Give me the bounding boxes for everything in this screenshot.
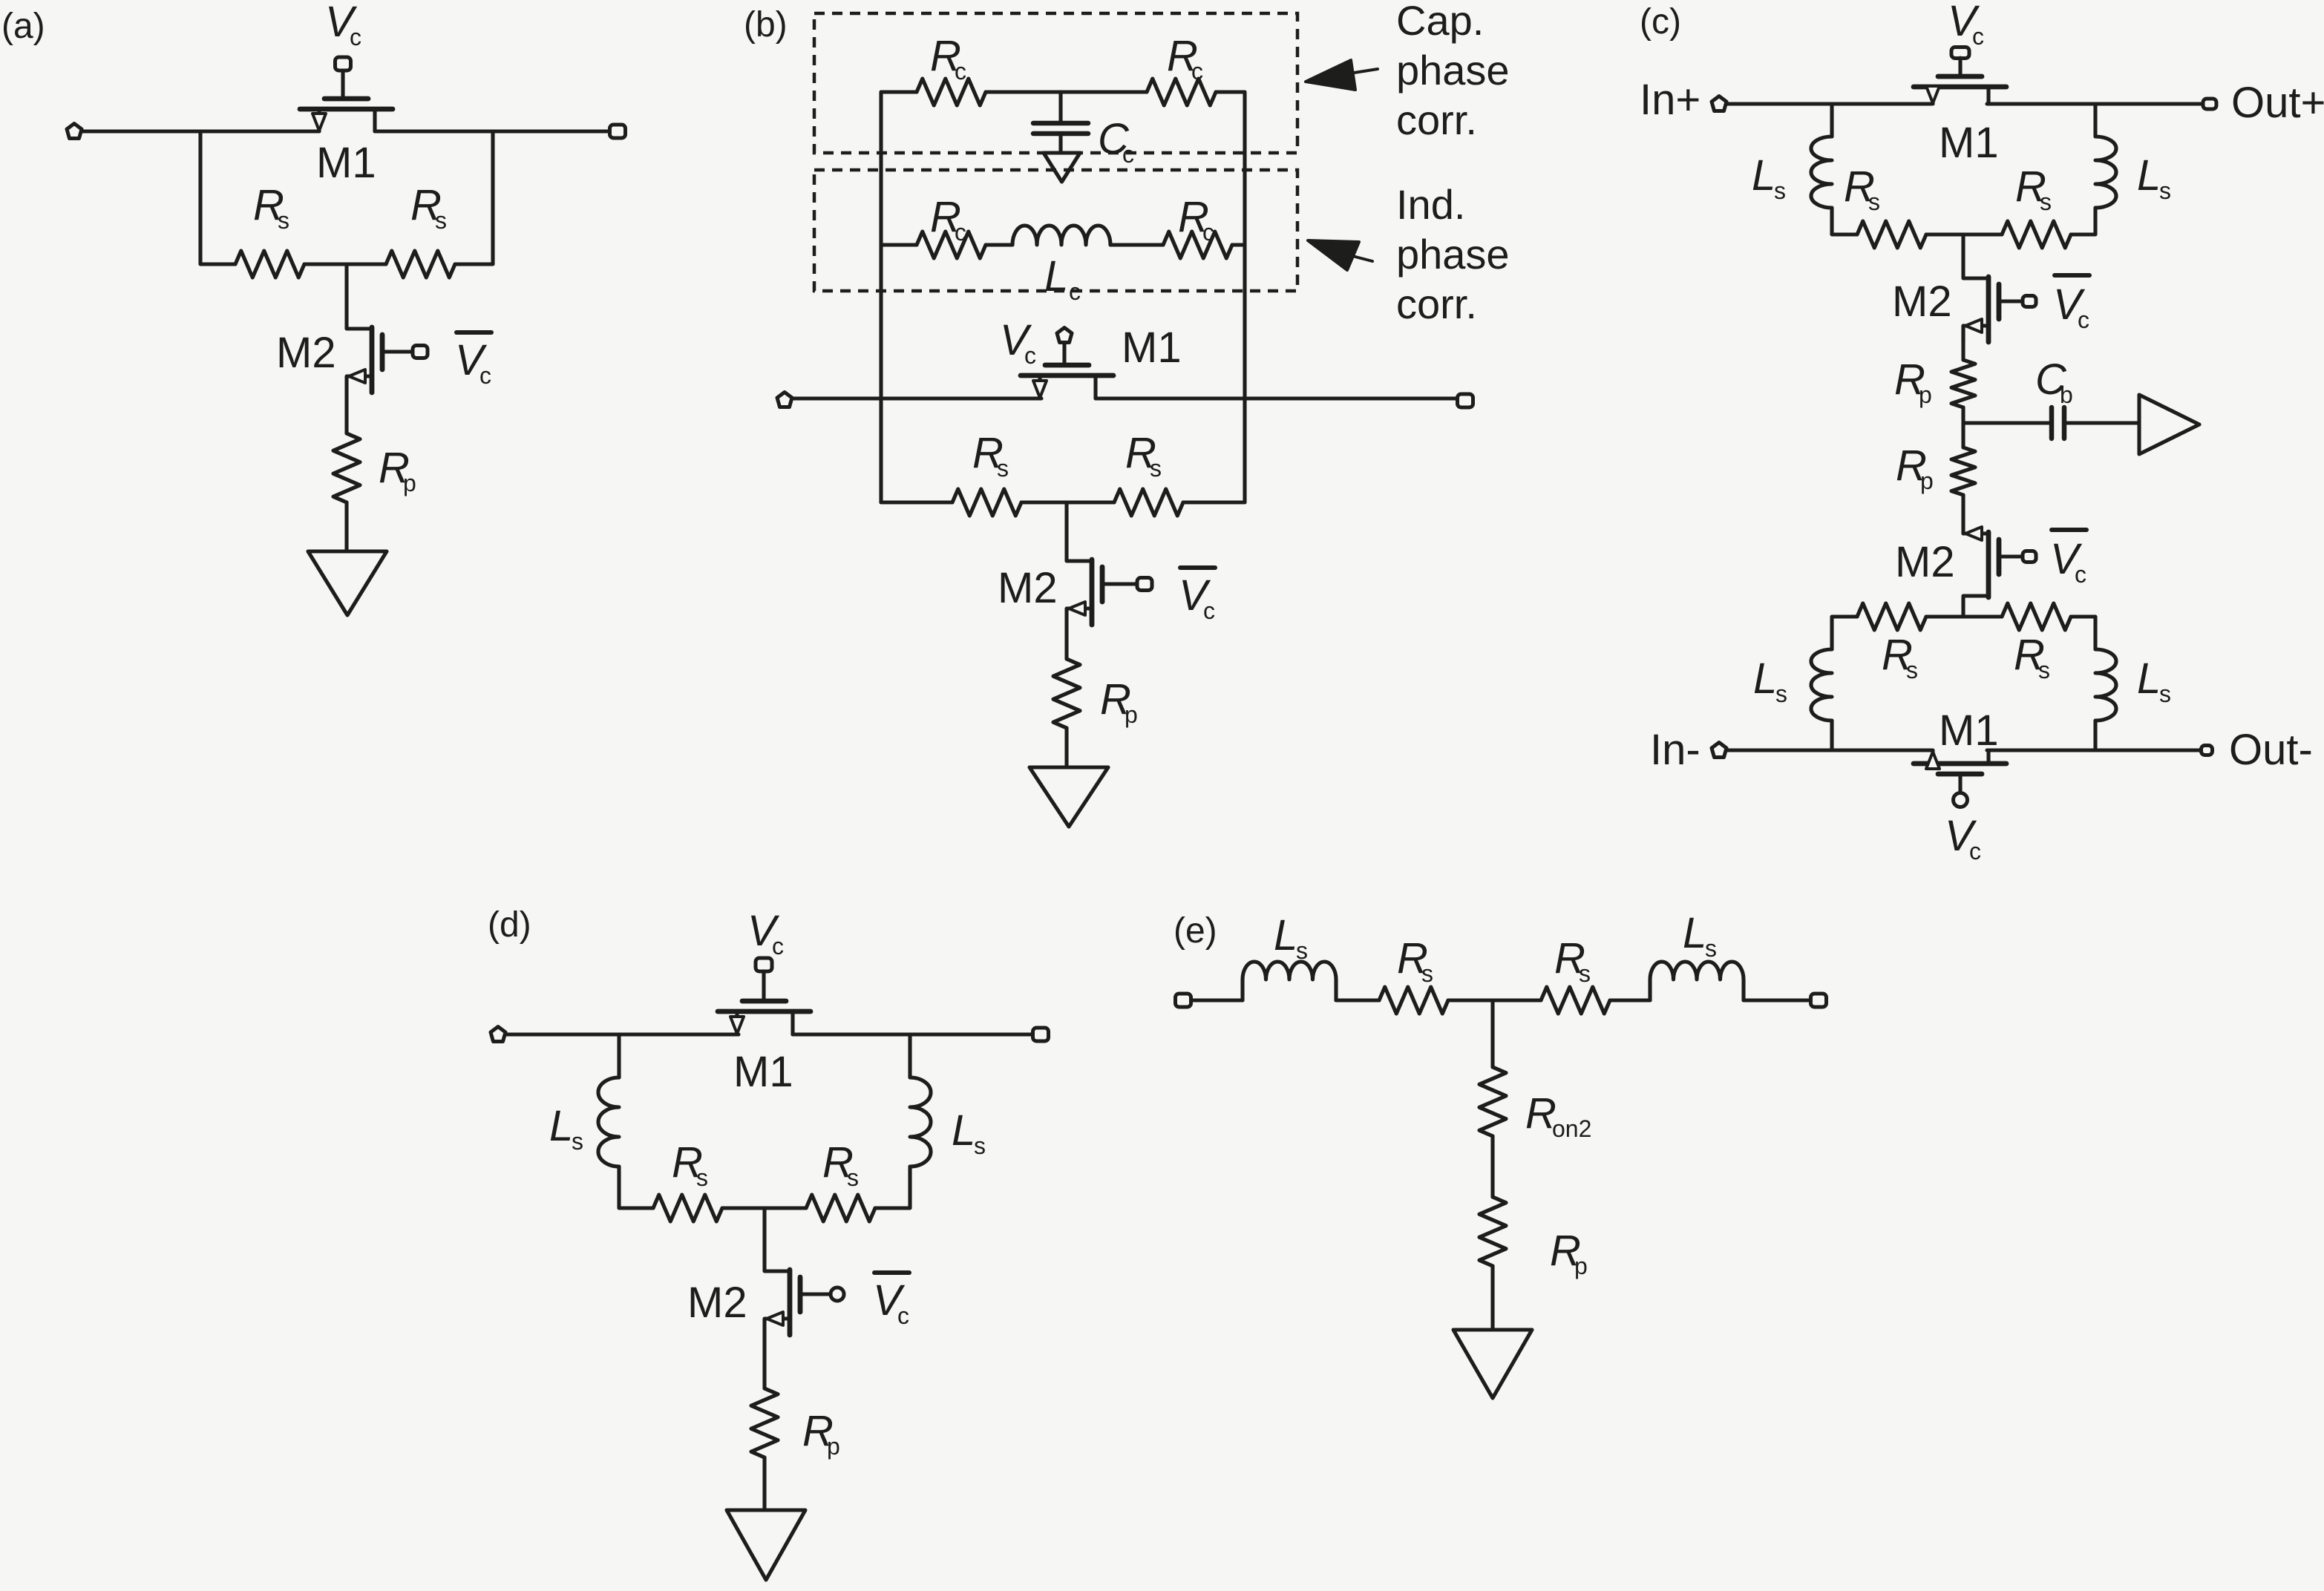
svg-text:c: c	[897, 1302, 909, 1329]
wire M2 source to Rp (panel a)	[344, 393, 348, 433]
wire Rp to ground (panel a)	[344, 502, 348, 551]
terminal In- (panel c)	[1712, 743, 1726, 758]
transistor M2 bottom (panel c)	[1963, 527, 2024, 597]
wire M1 to output (panel b)	[1096, 396, 1458, 400]
svg-text:L: L	[2137, 151, 2161, 200]
svg-text:s: s	[1296, 937, 1308, 964]
ground (panel e)	[1453, 1330, 1532, 1398]
resistor Rs left (panel b)	[952, 489, 1021, 516]
wire left drop to Rs branch (panel a)	[200, 131, 235, 264]
ground (panel b)	[1030, 767, 1108, 827]
svg-text:(e): (e)	[1174, 911, 1217, 951]
svg-text:M1: M1	[733, 1048, 793, 1096]
svg-text:p: p	[403, 470, 416, 496]
svg-text:M1: M1	[1939, 119, 1999, 167]
capacitor Cb (panel c)	[2052, 407, 2064, 439]
wire input to M1 (panel b)	[793, 396, 1041, 400]
terminal input left (panel e)	[1176, 994, 1191, 1007]
wire In- to M1 bottom (panel c)	[1727, 748, 1931, 752]
resistor Rs right (panel b)	[1114, 489, 1183, 516]
svg-text:c: c	[2075, 561, 2086, 588]
wire input to Ls (panel e)	[1191, 998, 1243, 1002]
wire Cb to buffer (panel c)	[2066, 421, 2138, 424]
wire Rp2 to M2 bottom (panel c)	[1961, 495, 1965, 534]
wire Rc to Lc (panel b)	[986, 243, 1012, 246]
svg-text:s: s	[435, 207, 447, 234]
svg-text:c: c	[1969, 838, 1981, 865]
dashed box capacitive phase corrector (panel b)	[814, 13, 1297, 153]
transistor M1 bottom (panel c)	[1914, 750, 2006, 774]
resistor Rs left (panel d)	[653, 1195, 722, 1221]
svg-text:In-: In-	[1650, 726, 1701, 774]
svg-text:c: c	[1202, 219, 1214, 246]
wire tap node to Cb (panel c)	[1963, 421, 2050, 424]
wire node to M2 drain (panel b)	[1064, 502, 1068, 560]
wire M1 to output (panel d)	[793, 1032, 1032, 1036]
wire Rs to right corner (panel b)	[1183, 500, 1245, 504]
svg-text:corr.: corr.	[1396, 96, 1477, 143]
svg-text:on2: on2	[1552, 1115, 1591, 1142]
svg-text:Cap.: Cap.	[1396, 0, 1484, 44]
transistor M2 (panel b)	[1067, 560, 1127, 625]
svg-text:L: L	[1753, 655, 1777, 703]
svg-text:s: s	[278, 207, 289, 234]
resistor Rc ind-left (panel b)	[917, 232, 986, 258]
wire Ls to Rs left (panel e)	[1336, 998, 1379, 1002]
wire In+ to M1 (panel c)	[1727, 102, 1931, 105]
svg-text:s: s	[1774, 177, 1786, 204]
svg-text:s: s	[1150, 455, 1162, 482]
svg-text:In+: In+	[1640, 76, 1701, 124]
transistor M2 (panel d)	[765, 1270, 825, 1335]
wire right drop top (panel c)	[2093, 104, 2097, 137]
svg-text:b: b	[2060, 381, 2073, 408]
label Vc-bar bottom (panel c)	[2052, 528, 2086, 532]
capacitor Cc (panel b)	[1033, 92, 1088, 153]
svg-text:c: c	[955, 58, 966, 85]
svg-text:s: s	[1705, 935, 1717, 962]
terminal Vc gate (panel a)	[335, 57, 351, 70]
resistor Rs bottom-left (panel c)	[1857, 603, 1926, 630]
wire M2 gate lead (panel a)	[382, 350, 413, 353]
wire M2 gate lead (panel d)	[800, 1292, 830, 1296]
resistor Rp (panel b)	[1053, 659, 1080, 728]
resistor Rc cap-left (panel b)	[917, 79, 986, 105]
terminal Vc-bar gate (panel d)	[831, 1287, 844, 1301]
resistor Rs top-left (panel c)	[1857, 221, 1926, 248]
inductor Ls bottom-left (panel c)	[1811, 649, 1832, 721]
wire node to M2 drain top (panel c)	[1961, 234, 1965, 277]
resistor Rs top-right (panel c)	[2002, 221, 2071, 248]
wire Rs to Ls right (panel e)	[1610, 998, 1650, 1002]
wire M2 source to Rp (panel b)	[1064, 625, 1068, 659]
wire coil to In- wire (panel c)	[1830, 721, 1833, 750]
terminal Vc gate (panel b)	[1057, 328, 1072, 343]
svg-text:L: L	[2137, 655, 2161, 703]
wire coil to Rs corner right (panel d)	[875, 1167, 910, 1208]
terminal input left (panel d)	[491, 1027, 505, 1042]
svg-text:p: p	[1574, 1253, 1588, 1279]
terminal Vc-bar gate bottom (panel c)	[2023, 551, 2036, 562]
terminal Vc-bar gate (panel b)	[1137, 578, 1152, 591]
svg-text:p: p	[827, 1433, 840, 1460]
resistor Rp lower (panel c)	[1951, 447, 1975, 495]
wire Rc to Cc stem (panel b)	[986, 90, 1147, 94]
resistor Rp (panel d)	[751, 1388, 778, 1457]
ground arrow under Cc (panel b)	[1044, 153, 1080, 182]
resistor Rs left (panel e)	[1379, 987, 1448, 1014]
svg-text:s: s	[1906, 657, 1918, 683]
wire coil to Rs corner left (panel d)	[619, 1167, 653, 1208]
svg-text:Ind.: Ind.	[1396, 181, 1465, 228]
transistor M1 (panel b)	[1021, 365, 1113, 398]
svg-text:s: s	[2159, 177, 2171, 204]
svg-text:c: c	[1972, 23, 1984, 50]
svg-text:M2: M2	[687, 1279, 747, 1327]
wire M2 gate lead top (panel c)	[1999, 299, 2021, 303]
wire ind branch left (panel b)	[881, 243, 917, 246]
svg-text:phase: phase	[1396, 47, 1510, 94]
inductor Lc (panel b)	[1012, 226, 1110, 245]
inductor Ls right (panel d)	[910, 1077, 931, 1167]
svg-text:c: c	[350, 24, 361, 50]
svg-text:s: s	[847, 1164, 859, 1191]
svg-text:c: c	[772, 933, 784, 959]
svg-text:(d): (d)	[488, 905, 531, 945]
svg-text:s: s	[997, 455, 1009, 482]
wire node down to Ron2 (panel e)	[1490, 1000, 1494, 1067]
resistor Rp (panel e)	[1479, 1197, 1506, 1266]
wire gate lead M1 top (panel c)	[1958, 58, 1962, 73]
svg-text:p: p	[1125, 701, 1138, 728]
wire cap branch left (panel b)	[881, 90, 917, 94]
wire Rc to right column (panel b)	[1216, 90, 1245, 94]
svg-text:s: s	[696, 1164, 708, 1191]
svg-text:L: L	[1752, 151, 1775, 200]
resistor Rc ind-right (panel b)	[1163, 232, 1232, 258]
resistor Ron2 (panel e)	[1479, 1067, 1506, 1136]
wire Rs left to node (panel a)	[304, 262, 347, 266]
resistor Rc cap-right (panel b)	[1147, 79, 1216, 105]
svg-text:(b): (b)	[744, 5, 788, 45]
transistor M2 top (panel c)	[1963, 277, 2024, 342]
wire coil to Out- wire (panel c)	[2093, 721, 2097, 750]
transistor M1 (panel d)	[718, 1001, 811, 1034]
ground (panel a)	[308, 551, 387, 615]
wire Rs to node (panel d)	[722, 1206, 806, 1210]
svg-text:L: L	[1683, 909, 1706, 957]
inductor Ls bottom-right (panel c)	[2095, 649, 2116, 721]
terminal output right (panel a)	[610, 125, 626, 138]
svg-text:c: c	[1191, 58, 1203, 85]
resistor Rs bottom-right (panel c)	[2002, 603, 2071, 630]
wire node to M2 drain (panel d)	[762, 1208, 766, 1270]
wire left drop (panel d)	[617, 1034, 621, 1077]
svg-text:L: L	[549, 1102, 573, 1150]
wire Ls to output (panel e)	[1744, 998, 1810, 1002]
svg-text:c: c	[1203, 597, 1215, 624]
svg-text:s: s	[1579, 960, 1591, 987]
resistor Rs right (panel a)	[386, 251, 455, 278]
wire Ron2 to Rp (panel e)	[1490, 1136, 1494, 1197]
terminal Out- (panel c)	[2202, 746, 2213, 755]
wire Rs to node (panel e)	[1448, 998, 1541, 1002]
svg-text:s: s	[1775, 680, 1787, 707]
svg-text:c: c	[1069, 278, 1081, 305]
svg-text:M2: M2	[1892, 278, 1952, 326]
label Vc-bar (panel b)	[1180, 565, 1215, 570]
svg-text:s: s	[2040, 188, 2052, 215]
terminal Vc gate top (panel c)	[1951, 47, 1969, 59]
node center (panel a)	[347, 262, 386, 266]
transistor M2 (panel a)	[347, 327, 407, 393]
terminal input left (panel b)	[777, 393, 792, 407]
inductor Ls right (panel e)	[1650, 962, 1744, 1000]
svg-text:s: s	[1868, 188, 1880, 215]
resistor Rs right (panel e)	[1541, 987, 1610, 1014]
wire node to M2 drain (panel a)	[344, 264, 348, 327]
svg-text:L: L	[1274, 911, 1297, 959]
wire M2 source to Rp1 (panel c)	[1961, 326, 1965, 360]
wire coil to Rs corner top-right (panel c)	[2071, 208, 2095, 234]
svg-text:s: s	[974, 1132, 986, 1159]
svg-text:M1: M1	[1939, 706, 1999, 755]
wire Rp to ground (panel d)	[762, 1457, 766, 1510]
svg-text:c: c	[2078, 306, 2089, 333]
terminal Vc-bar gate top (panel c)	[2023, 296, 2036, 307]
wire Rs corner bottom-left (panel c)	[1832, 617, 1857, 649]
wire M2 source to Rp (panel d)	[762, 1335, 766, 1388]
wire Rs to node (panel b)	[1021, 500, 1114, 504]
wire Rs corner bottom-right (panel c)	[2071, 617, 2095, 649]
terminal input left (panel a)	[67, 124, 82, 139]
wire Rs to node top (panel c)	[1926, 232, 2002, 236]
transistor M1 top (panel c)	[1914, 76, 2006, 104]
svg-text:Out-: Out-	[2229, 726, 2313, 774]
wire M1 drain to output (panel a)	[375, 129, 609, 133]
buffer amplifier (panel c)	[2139, 395, 2199, 454]
wire left drop top (panel c)	[1830, 104, 1833, 137]
wire gate lead M1 (panel b)	[1062, 343, 1066, 362]
wire M1 to Out+ (panel c)	[1987, 102, 2202, 105]
resistor Rs left (panel a)	[235, 251, 304, 278]
svg-text:corr.: corr.	[1396, 281, 1477, 327]
svg-text:s: s	[572, 1128, 583, 1155]
svg-text:p: p	[1920, 468, 1934, 494]
arrow to cap phase corrector (panel b)	[1306, 60, 1355, 90]
wire gate lead M1 bottom (panel c)	[1958, 774, 1962, 793]
terminal Vc gate bottom (panel c)	[1954, 793, 1968, 807]
svg-text:M2: M2	[276, 329, 336, 377]
terminal In+ (panel c)	[1712, 96, 1726, 111]
svg-text:(c): (c)	[1640, 2, 1681, 42]
wire M2 drain to node bottom (panel c)	[1961, 597, 1965, 617]
wire right drop (panel d)	[908, 1034, 911, 1077]
resistor Rs right (panel d)	[806, 1195, 875, 1221]
label Vc-bar (panel d)	[874, 1270, 909, 1275]
wire Rp to ground (panel e)	[1490, 1266, 1494, 1330]
terminal Vc gate (panel d)	[756, 958, 772, 971]
svg-text:phase: phase	[1396, 231, 1510, 278]
svg-text:Out+: Out+	[2231, 79, 2324, 127]
wire M1 to Out- (panel c)	[1987, 748, 2200, 752]
svg-text:s: s	[2159, 680, 2171, 707]
terminal Out+ (panel c)	[2203, 99, 2216, 109]
wire coil to Rs corner top-left (panel c)	[1832, 208, 1857, 234]
resistor Rp (panel a)	[333, 433, 360, 502]
svg-text:M2: M2	[1895, 538, 1955, 586]
resistor Rp upper (panel c)	[1951, 360, 1975, 407]
wire Rc to right column ind (panel b)	[1232, 243, 1245, 246]
svg-text:M1: M1	[316, 139, 376, 187]
svg-text:L: L	[952, 1106, 975, 1155]
label Vc-bar top (panel c)	[2055, 273, 2089, 278]
terminal Vc-bar gate (panel a)	[413, 346, 428, 358]
label Vc-bar (panel a)	[456, 330, 491, 335]
inductor Ls left (panel d)	[598, 1077, 619, 1167]
terminal output right (panel b)	[1458, 394, 1473, 407]
svg-text:M2: M2	[998, 564, 1058, 612]
arrow to ind phase corrector (panel b)	[1308, 240, 1359, 270]
wire Rp1 to tap node (panel c)	[1961, 407, 1965, 447]
wire gate lead M1 (panel a)	[341, 70, 344, 96]
ground (panel d)	[727, 1510, 805, 1580]
terminal output right (panel d)	[1033, 1028, 1049, 1041]
wire left column (panel b)	[879, 92, 883, 502]
svg-text:s: s	[1421, 960, 1433, 987]
wire Rs node bottom (panel c)	[1926, 614, 2002, 618]
wire gate lead M1 (panel d)	[762, 971, 765, 998]
wire input to M1 (panel d)	[506, 1032, 739, 1036]
svg-text:p: p	[1919, 381, 1932, 408]
svg-text:c: c	[1024, 342, 1036, 369]
wire Rs right to right drop (panel a)	[455, 131, 493, 264]
wire M2 gate lead bottom (panel c)	[1999, 554, 2021, 558]
wire Lc to Rc (panel b)	[1110, 243, 1163, 246]
svg-text:s: s	[2038, 657, 2050, 683]
inductor Ls top-left (panel c)	[1811, 137, 1832, 208]
svg-text:c: c	[1122, 141, 1134, 168]
svg-text:M1: M1	[1122, 324, 1182, 372]
terminal output right (panel e)	[1811, 994, 1827, 1007]
dashed box inductive phase corrector (panel b)	[814, 170, 1297, 291]
wire input to M1 source (panel a)	[82, 129, 319, 133]
wire right column (panel b)	[1243, 92, 1246, 502]
wire Rs branch left corner (panel b)	[881, 500, 952, 504]
wire M2 gate lead (panel b)	[1102, 582, 1137, 585]
wire Rp to ground (panel b)	[1064, 728, 1068, 767]
svg-text:c: c	[479, 362, 491, 389]
inductor Ls left (panel e)	[1243, 962, 1336, 1000]
transistor M1 (panel a)	[300, 99, 393, 131]
svg-text:(a): (a)	[1, 7, 45, 46]
svg-text:L: L	[1044, 252, 1068, 301]
inductor Ls top-right (panel c)	[2095, 137, 2116, 208]
svg-text:c: c	[955, 219, 966, 246]
